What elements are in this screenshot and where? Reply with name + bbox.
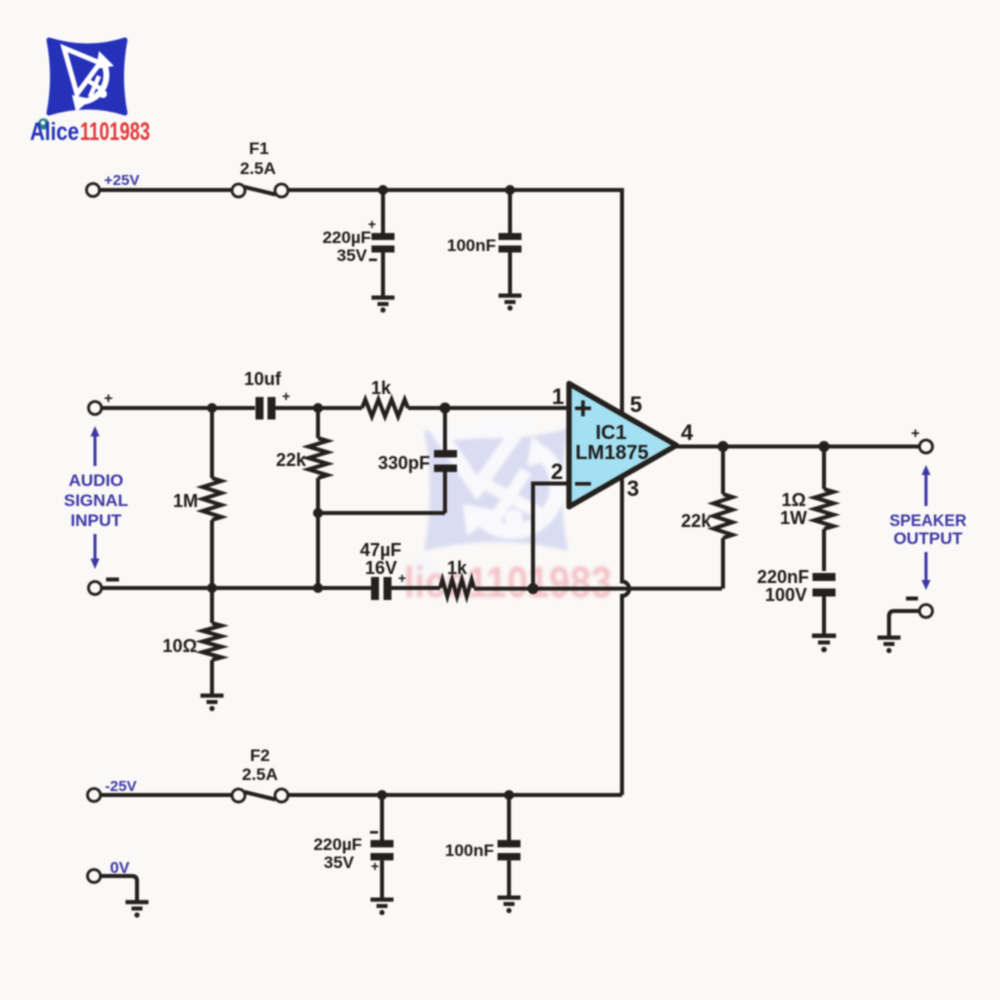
wire bottom rail left [101,793,232,797]
svg-text:22k: 22k [681,511,712,531]
node 0V terminal [88,870,101,883]
svg-text:220µF: 220µF [313,835,362,854]
svg-text:SPEAKER: SPEAKER [890,511,967,530]
fuse F1 2.5A [232,139,288,197]
svg-text:100nF: 100nF [445,841,494,860]
svg-text:220nF: 220nF [757,567,809,587]
junction 22k top [313,403,323,413]
resistor R 22k output [681,447,733,589]
ground below C6 [812,634,836,653]
svg-text:1: 1 [552,384,564,409]
op-amp IC1 LM1875 [569,384,677,507]
junction top rail C2 [505,185,515,195]
ground below C8 [498,896,521,914]
label input minus [106,578,119,582]
label speaker minus [906,597,918,601]
svg-text:2.5A: 2.5A [240,159,276,178]
svg-text:220µF: 220µF [322,228,371,247]
svg-text:OUTPUT: OUTPUT [894,529,964,548]
svg-text:2.5A: 2.5A [242,765,278,784]
capacitor C5 47uF 16V [360,540,406,600]
svg-text:lice1101983: lice1101983 [404,558,612,607]
junction bottom rail C8 [504,790,514,800]
fuse F2 2.5A [232,746,288,802]
svg-text:1k: 1k [371,378,392,398]
resistor R 10ohm [163,588,222,695]
ground below C2 [499,294,522,311]
wire after C3 [276,406,363,410]
ground speaker minus [878,636,901,654]
svg-text:Alice: Alice [30,118,79,146]
svg-text:SIGNAL: SIGNAL [64,491,128,510]
svg-text:2: 2 [551,459,563,484]
audio input arrow upper [91,426,100,466]
svg-text:100nF: 100nF [447,236,496,255]
svg-text:22k: 22k [276,450,307,470]
junction 330pF top [440,403,451,414]
resistor R 1ohm 1W [780,447,834,572]
svg-text:330pF: 330pF [378,453,430,473]
resistor R 1k input [362,400,408,417]
wire feedback rail to 22k [474,587,722,591]
wire pin2 stub [533,484,569,589]
svg-text:+: + [371,858,379,874]
wire top rail left [100,188,232,192]
svg-text:1101983: 1101983 [80,118,150,146]
svg-text:100V: 100V [765,585,807,605]
capacitor C4 330pF [378,408,457,513]
junction pin2 rail [528,583,539,594]
resistor R 1M [173,408,222,588]
svg-text:1Ω: 1Ω [782,490,806,510]
wire input minus rail [102,586,371,590]
resistor R 22k input [276,408,328,513]
junction 1M bottom [207,583,217,593]
svg-text:IC1: IC1 [595,422,626,444]
wire top rail right [288,188,622,192]
node +25V terminal [87,184,100,197]
ground below 10ohm [201,694,224,712]
capacitor C3 10uf [244,369,290,420]
svg-text:10uf: 10uf [244,369,282,389]
svg-text:LM1875: LM1875 [575,442,648,464]
svg-text:5: 5 [630,392,642,417]
node speaker + terminal [920,440,933,453]
svg-text:+: + [398,570,406,586]
svg-text:1M: 1M [173,491,198,511]
node -25V terminal [88,789,101,802]
svg-text:AUDIO: AUDIO [69,471,124,490]
watermark backdrop [404,428,612,607]
capacitor C8 100nF bottom [445,795,521,897]
junction 22k bottom rail [313,583,323,593]
wire feedback node horizontal [318,511,445,515]
wire pin3 vertical with hop [622,476,629,795]
resistor R 1k feedback [440,580,474,597]
svg-text:35V: 35V [324,853,355,872]
wire input plus [102,406,255,410]
junction 1ohm top [819,441,830,452]
svg-text:4: 4 [681,420,694,445]
svg-text:-25V: -25V [105,778,137,795]
audio input arrow lower [91,534,100,569]
wire to pin1 [408,406,569,410]
svg-text:F1: F1 [249,139,269,158]
wire output [676,445,920,449]
svg-text:INPUT: INPUT [71,511,123,530]
capacitor C7 220uF 35V bottom [313,795,393,899]
svg-text:+: + [282,388,290,404]
capacitor C1 220uF 35V [322,190,394,297]
junction 1M top [207,403,217,413]
svg-text:47µF: 47µF [360,540,401,560]
capacitor C2 100nF top [447,190,522,295]
junction feedback node [313,508,323,518]
junction top rail C1 [378,185,388,195]
node speaker - terminal [920,605,933,618]
node input + terminal [89,402,102,415]
svg-text:16V: 16V [365,558,397,578]
svg-text:F2: F2 [250,746,270,765]
junction 22k output [718,441,729,452]
svg-text:10Ω: 10Ω [163,636,197,656]
svg-text:1k: 1k [447,558,468,578]
capacitor C6 220nF 100V [757,567,836,634]
svg-text:35V: 35V [337,246,368,265]
junction bottom rail C7 [377,790,387,800]
wire pin5 vertical [620,188,624,414]
svg-text:3: 3 [627,476,639,501]
ground below C7 [371,898,394,916]
wire bottom rail right [288,793,622,797]
wire speaker minus to ground [889,611,920,636]
svg-text:1W: 1W [780,508,807,528]
speaker arrow blue [922,465,931,590]
svg-text:+: + [911,425,920,442]
svg-text:+25V: +25V [104,172,139,189]
wire after C5 [392,586,441,590]
logo shield [30,40,150,146]
wire 0V to ground [101,876,137,901]
ground below C1 [372,296,395,313]
wire 22k bottom to minus rail [316,513,320,588]
node input - terminal [89,582,102,595]
svg-text:+: + [104,390,113,407]
ground 0V [126,900,149,918]
